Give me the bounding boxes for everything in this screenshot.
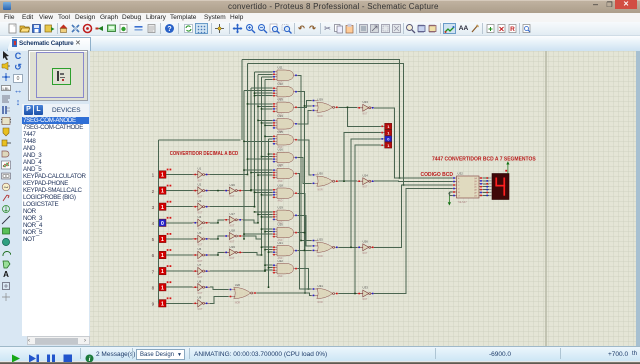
title bar: [0, 0, 640, 13]
svg-text:U16: U16: [230, 183, 236, 187]
svg-text:NOR: NOR: [235, 302, 240, 304]
inverter U7: [193, 263, 211, 279]
sheet edge line: [545, 51, 547, 346]
inverter U3: [193, 199, 211, 215]
svg-text:7447 CONVERTIDOR BCD A 7 SEGME: 7447 CONVERTIDOR BCD A 7 SEGMENTOS: [432, 157, 536, 163]
devices header: [22, 104, 89, 117]
logicstate 4: [152, 217, 172, 227]
NOR gate U20: [229, 283, 257, 305]
inverter U18: [224, 228, 243, 243]
svg-text:U4: U4: [198, 215, 202, 219]
svg-text:U23: U23: [363, 100, 369, 104]
logicstate 8: [152, 281, 172, 291]
caption 7447 CONVERTIDOR BCD A 7 SEGMENTOS: [432, 157, 536, 163]
AND gate U22: [273, 259, 298, 278]
svg-text:NOR: NOR: [318, 302, 323, 304]
svg-text:U29: U29: [318, 98, 324, 102]
svg-text:1: 1: [161, 173, 164, 179]
logicstate 5: [152, 233, 172, 243]
logicstate 6: [152, 249, 172, 259]
wire buffer row 2 to U16: [210, 190, 224, 192]
svg-text:1: 1: [152, 173, 155, 178]
schematic svg placeholder: [90, 51, 636, 346]
svg-text:6: 6: [152, 253, 155, 258]
wire U23 to chip pin A: [374, 108, 453, 178]
svg-text:1: 1: [161, 301, 164, 307]
logicstate 3: [152, 201, 172, 211]
svg-text:U17: U17: [230, 212, 236, 216]
svg-text:U22: U22: [278, 259, 284, 263]
svg-text:U32: U32: [458, 172, 464, 176]
svg-text:5: 5: [152, 237, 155, 242]
svg-text:0: 0: [161, 221, 164, 227]
tab bar: [0, 36, 640, 51]
svg-text:NOT: NOT: [363, 187, 368, 189]
svg-text:AND: AND: [278, 200, 283, 203]
svg-text:NOT: NOT: [230, 196, 235, 198]
svg-text:U18: U18: [278, 183, 284, 187]
svg-text:NOT: NOT: [230, 258, 235, 260]
svg-text:U19: U19: [230, 245, 236, 249]
svg-text:U6: U6: [198, 247, 202, 251]
svg-text:7: 7: [152, 269, 155, 274]
wire state 1 to buffer: [166, 174, 193, 176]
svg-text:2: 2: [152, 189, 155, 194]
svg-text:U19: U19: [278, 206, 284, 210]
logicstate 1: [152, 169, 172, 179]
svg-text:U5: U5: [198, 231, 202, 235]
wire state 4 to buffer: [166, 222, 193, 224]
inverter U1: [193, 167, 211, 183]
wire chip ground pins: [449, 192, 452, 196]
svg-text:U20: U20: [278, 223, 284, 227]
svg-text:U7: U7: [198, 263, 202, 267]
logicstate 7: [152, 265, 172, 275]
svg-text:CONVERTIDOR DECIMAL A BCD: CONVERTIDOR DECIMAL A BCD: [170, 151, 239, 157]
logicstate 2: [152, 185, 172, 195]
wire chip outputs to display: [483, 177, 489, 196]
svg-text:U26: U26: [363, 240, 369, 244]
svg-text:U25: U25: [318, 238, 324, 242]
inverter U5: [193, 231, 211, 247]
minimap: [28, 50, 88, 101]
svg-text:U15: U15: [278, 130, 284, 134]
devices list: [22, 117, 89, 336]
AND gate U11: [273, 65, 298, 84]
NOR gate U31: [312, 284, 339, 304]
wire U26 to chip pin C: [374, 185, 453, 247]
svg-text:U14: U14: [278, 114, 284, 118]
svg-text:U33: U33: [363, 286, 369, 290]
inverter U8: [193, 279, 211, 295]
inverter U26: [357, 240, 375, 255]
svg-text:1: 1: [161, 205, 164, 211]
NOR gate U30: [312, 172, 339, 192]
svg-text:R: R: [510, 26, 515, 33]
inverter U2: [193, 183, 211, 199]
svg-text:NOT: NOT: [198, 309, 203, 311]
wire top rail 1: [242, 60, 400, 179]
svg-text:NOT: NOT: [363, 113, 368, 115]
wire NOR U20 to NOR U31: [257, 293, 312, 295]
wire buffer row 6 to U19: [210, 252, 224, 255]
rotation column: [13, 51, 23, 61]
svg-text:U31: U31: [318, 284, 324, 288]
wire bus buffers to AND gates: [210, 63, 272, 288]
svg-text:U8: U8: [198, 279, 202, 283]
caption CONVERTIDOR DECIMAL A BCD: [170, 151, 239, 157]
wire state 7 to buffer: [166, 270, 193, 272]
svg-text:NOT: NOT: [363, 299, 368, 301]
AND gate U14: [273, 114, 298, 133]
AND gate U13: [273, 98, 298, 117]
toolbar: [0, 22, 640, 36]
svg-text:?: ?: [167, 26, 171, 33]
7-segment display showing 4: [489, 170, 509, 200]
wire buffer row 4 to U17: [210, 220, 224, 224]
wire state 6 to buffer: [166, 254, 193, 256]
wire state 3 to buffer: [166, 206, 193, 208]
inverter U16: [224, 183, 243, 198]
svg-text:74LS47: 74LS47: [458, 200, 468, 204]
svg-text:NOR: NOR: [318, 190, 323, 192]
svg-text:NOT: NOT: [230, 242, 235, 244]
menu bar: [0, 13, 640, 22]
svg-text:U1: U1: [198, 167, 202, 171]
svg-text:4: 4: [152, 221, 155, 226]
svg-text:U2: U2: [198, 183, 202, 187]
svg-text:U18: U18: [230, 228, 236, 232]
AND gate U21: [273, 241, 298, 260]
svg-text:NOR: NOR: [318, 116, 323, 118]
status bar: [0, 346, 640, 361]
svg-text:U12: U12: [278, 82, 284, 86]
AND gate U15: [273, 130, 298, 149]
wire U33 to chip pin D: [374, 189, 453, 294]
power terminal arrow: [506, 161, 509, 173]
svg-text:U30: U30: [318, 172, 324, 176]
inverter U4: [193, 215, 211, 231]
wire NOR U29 to U23 and probe: [339, 107, 381, 127]
ground terminal arrow: [448, 192, 451, 206]
svg-text:1: 1: [161, 189, 164, 195]
svg-text:U16: U16: [278, 148, 284, 152]
inverter U33: [357, 286, 375, 301]
wire buffers 8 9 to NOR U20: [210, 287, 228, 303]
wire bus lower AND inputs: [243, 153, 272, 271]
wire state 2 to buffer: [166, 190, 193, 192]
AND gate U19: [273, 206, 298, 225]
BCD logic probes stack: [381, 123, 392, 148]
wire top rail 2: [248, 63, 405, 185]
wire feedback loop left: [159, 140, 241, 303]
AND gate U16: [273, 148, 298, 167]
svg-text:CODIGO BCD: CODIGO BCD: [421, 172, 454, 178]
wire NOR U25 to U26 and probe: [339, 139, 381, 248]
AND gate U17: [273, 164, 298, 183]
svg-text:1: 1: [161, 285, 164, 291]
AND gate U18: [273, 183, 298, 202]
svg-text:AND: AND: [278, 275, 283, 278]
svg-text:U11: U11: [278, 65, 283, 69]
inverter U24: [357, 173, 375, 188]
wire buffer row 5 to U18: [210, 236, 224, 240]
wire state 8 to buffer: [166, 286, 193, 288]
svg-text:NOR: NOR: [318, 256, 323, 258]
wire state 5 to buffer: [166, 238, 193, 240]
wire U24 to chip pin B: [374, 180, 453, 182]
inverter U6: [193, 247, 211, 263]
svg-text:U20: U20: [235, 283, 241, 287]
inverter U9: [193, 295, 211, 311]
svg-text:U24: U24: [363, 173, 369, 177]
NOR gate U25: [312, 238, 339, 258]
logicstate 9: [152, 297, 172, 307]
svg-text:U21: U21: [278, 241, 284, 245]
svg-text:U17: U17: [278, 164, 284, 168]
svg-text:U13: U13: [278, 98, 284, 102]
svg-text:8: 8: [152, 285, 155, 290]
svg-text:U3: U3: [198, 199, 202, 203]
NOR gate U29: [312, 98, 339, 118]
svg-text:NOT: NOT: [363, 253, 368, 255]
svg-text:3: 3: [152, 205, 155, 210]
caption CODIGO BCD: [421, 172, 454, 178]
inverter U17: [224, 212, 243, 227]
svg-text:1: 1: [161, 269, 164, 275]
wire AND outputs to NOR gates: [298, 75, 312, 294]
wire NOR U30 to U24 and probe: [339, 133, 381, 182]
left toolbars: [0, 51, 12, 346]
svg-text:U9: U9: [198, 295, 202, 299]
7447 chip U32: [453, 172, 484, 204]
inverter U23: [357, 100, 375, 115]
AND gate U20: [273, 223, 298, 242]
wire NOR U31 to U33 and probe: [339, 145, 381, 294]
inverter U19: [224, 245, 243, 260]
svg-text:1: 1: [161, 237, 164, 243]
AND gate U12: [273, 82, 298, 101]
svg-text:1: 1: [161, 253, 164, 259]
svg-text:LBL: LBL: [2, 86, 10, 91]
svg-text:QG: QG: [474, 195, 478, 197]
wire state 9 to buffer: [166, 302, 193, 304]
svg-text:NOT: NOT: [230, 225, 235, 227]
svg-text:9: 9: [152, 302, 155, 307]
devices scrollbar: [27, 336, 90, 345]
